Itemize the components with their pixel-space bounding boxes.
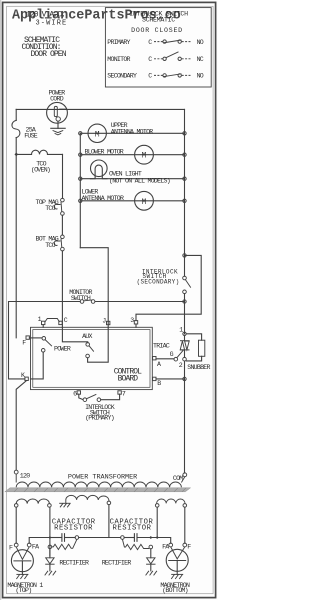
power cord	[47, 90, 68, 124]
magnetron 1 (top)	[7, 543, 43, 594]
interlock switch primary	[79, 394, 120, 421]
svg-text:120: 120	[20, 472, 30, 479]
left motor bus vertical	[79, 133, 81, 247]
FA2 branch wire	[157, 538, 171, 544]
page border outer	[3, 2, 216, 597]
wire bus corner to J	[80, 248, 108, 328]
capacitor resistor label left	[52, 519, 96, 533]
wire BOT MAG TCO down to connector 1-C	[61, 251, 63, 327]
blower motor M2	[85, 145, 154, 164]
svg-text:NC: NC	[197, 56, 204, 63]
svg-text:(NOT ON ALL MODELS): (NOT ON ALL MODELS)	[109, 177, 170, 184]
svg-text:DOOR CLOSED: DOOR CLOSED	[131, 27, 183, 34]
pin 7 connector	[118, 390, 126, 397]
wire C pin to aux relay	[62, 327, 87, 342]
rectifier D2	[102, 549, 157, 576]
wire F to power relay	[29, 337, 42, 339]
svg-text:CORD: CORD	[50, 96, 64, 103]
svg-text:FUSE: FUSE	[24, 132, 38, 139]
capacitor C1	[50, 534, 75, 542]
svg-text:120 V.A.C.: 120 V.A.C.	[26, 11, 65, 20]
bypass loop wire right	[136, 255, 201, 320]
node B junction	[183, 377, 186, 380]
upper antenna motor row wire	[80, 132, 184, 134]
power transformer	[5, 470, 191, 507]
wire TCO branch horizontal	[16, 153, 31, 155]
BOT MAG TCO	[36, 235, 65, 251]
wire B to right vertical	[156, 378, 185, 380]
schematic condition note	[22, 36, 67, 59]
wire winding to cap node left	[49, 507, 51, 556]
title text 120 V.A.C. 3-WIRE	[26, 11, 67, 28]
monitor switch row wire	[9, 302, 185, 379]
svg-text:TCO: TCO	[45, 205, 55, 212]
svg-text:M: M	[142, 199, 147, 207]
HV ground	[59, 502, 70, 504]
oven light row wire	[80, 178, 184, 180]
svg-text:POWER TRANSFORMER: POWER TRANSFORMER	[68, 474, 137, 482]
pin B connector	[153, 377, 162, 387]
table row MONITOR (open contact)	[107, 52, 204, 63]
resistor R2	[122, 539, 152, 549]
wire vertical to TOP MAG TCO	[62, 154, 64, 198]
node row2 right	[183, 153, 186, 156]
svg-text:M: M	[142, 153, 147, 161]
pin K connector	[21, 372, 28, 381]
wire aux relay to J	[88, 327, 109, 362]
capacitor C2	[124, 534, 157, 542]
svg-text:NO: NO	[197, 39, 204, 46]
node cap left junction	[48, 536, 51, 539]
snubber	[186, 334, 210, 371]
upper antenna motor M1	[88, 122, 153, 142]
node row4 right	[183, 199, 186, 202]
table row PRIMARY (closed contact)	[107, 39, 204, 46]
svg-text:SNUBBER: SNUBBER	[187, 364, 210, 371]
terminal 120	[14, 470, 18, 474]
svg-text:(BOTTOM): (BOTTOM)	[162, 587, 188, 594]
pin J connector	[102, 318, 110, 325]
node row3 right	[183, 177, 186, 180]
table row SECONDARY (closed contact)	[107, 73, 204, 80]
wire between TCOs	[61, 215, 63, 235]
svg-text:(SECONDARY): (SECONDARY)	[137, 278, 180, 285]
wire K to transformer 120	[16, 381, 26, 471]
node 76.9	[75, 536, 79, 540]
FA1 branch wire	[29, 538, 50, 544]
TCO (OVEN) thermal cutout	[31, 150, 63, 173]
svg-text:BOARD: BOARD	[118, 375, 139, 384]
svg-text:RESISTOR: RESISTOR	[113, 524, 152, 532]
wire A to triac gate	[156, 358, 174, 360]
svg-text:SCHEMATIC: SCHEMATIC	[142, 16, 175, 23]
wire triac pin2 to B node to COM	[184, 361, 186, 473]
interlock switch schematic box	[105, 8, 211, 87]
wire left vertical fuse to F pin row	[15, 138, 17, 338]
scan edge shading left	[0, 0, 1, 600]
aux relay contact	[82, 333, 94, 358]
oven light lamp	[90, 160, 170, 184]
svg-text:ANTENNA MOTOR: ANTENNA MOTOR	[82, 195, 124, 202]
svg-text:PRIMARY: PRIMARY	[107, 39, 130, 46]
svg-text:MONITOR: MONITOR	[107, 56, 130, 63]
fuse 25A	[12, 120, 20, 137]
power relay contact	[41, 337, 70, 353]
pin A connector	[153, 357, 161, 369]
svg-text:3-WIRE: 3-WIRE	[36, 20, 68, 28]
monitor switch	[69, 289, 95, 303]
node row1 left	[79, 132, 82, 135]
wire winding right to cap node	[156, 507, 158, 537]
mid wire between sections	[79, 537, 121, 539]
TOP MAG TCO	[36, 198, 65, 215]
svg-text:DOOR OPEN: DOOR OPEN	[31, 50, 67, 59]
node resistor-cap right junction dot	[149, 536, 152, 539]
svg-text:TRIAC: TRIAC	[153, 343, 170, 350]
connector 1-C jumper above board	[38, 316, 68, 327]
svg-text:RECTIFIER: RECTIFIER	[102, 559, 132, 566]
svg-text:RESISTOR: RESISTOR	[54, 524, 93, 532]
wire F2 down	[184, 507, 186, 543]
lower antenna motor row wire	[80, 200, 184, 202]
svg-text:(PRIMARY): (PRIMARY)	[85, 415, 114, 422]
node right bus bottom	[183, 254, 186, 257]
svg-text:FA: FA	[32, 543, 39, 550]
rectifier D1	[45, 549, 89, 576]
junction at TCO branch	[14, 153, 18, 157]
svg-text:ANTENNA MOTOR: ANTENNA MOTOR	[111, 128, 153, 135]
svg-text:POWER: POWER	[54, 345, 71, 352]
svg-text:NO: NO	[197, 73, 204, 80]
primary winding	[16, 474, 185, 487]
node monitor right	[183, 300, 186, 303]
transformer core	[5, 488, 191, 492]
svg-text:RECTIFIER: RECTIFIER	[59, 559, 89, 566]
filament winding left	[16, 499, 49, 504]
svg-text:OVEN LIGHT: OVEN LIGHT	[109, 170, 142, 177]
interlock switch secondary	[137, 255, 191, 293]
capacitor resistor label right	[110, 519, 154, 533]
svg-text:SECONDARY: SECONDARY	[107, 73, 137, 80]
wire power relay to K	[31, 352, 44, 379]
resistor R1	[48, 539, 77, 549]
wire left vertical from top to fuse	[15, 109, 17, 120]
svg-text:(OVEN): (OVEN)	[31, 167, 50, 174]
svg-text:(TOP): (TOP)	[15, 587, 31, 594]
triac	[153, 326, 190, 369]
node row2 left	[79, 153, 82, 156]
control board outline	[31, 327, 153, 389]
blower motor row wire	[80, 154, 184, 156]
terminal COM	[183, 473, 187, 477]
watermark AppliancePartsPros	[12, 9, 181, 24]
svg-text:TCO: TCO	[45, 242, 55, 249]
pin F connector	[22, 336, 29, 347]
wire top horizontal L1	[16, 108, 184, 110]
svg-text:AUX: AUX	[82, 333, 92, 340]
lower antenna motor M3	[82, 188, 154, 210]
interlock box title	[129, 11, 188, 34]
right bus vertical	[184, 109, 186, 255]
svg-text:BLOWER MOTOR: BLOWER MOTOR	[85, 148, 124, 155]
node cap right junction	[156, 536, 159, 539]
svg-text:M: M	[95, 131, 100, 139]
power cord ground	[51, 121, 65, 135]
HV winding with ground	[66, 495, 109, 503]
svg-text:FA: FA	[162, 543, 169, 550]
node row4 left	[79, 199, 82, 202]
wire interlock secondary to monitor node	[184, 294, 186, 334]
svg-text:COM: COM	[173, 475, 183, 482]
page border inner	[7, 6, 214, 593]
pin 3 connector	[130, 317, 137, 328]
node row1 right	[183, 132, 186, 135]
node row3 left	[79, 177, 82, 180]
wire HV to mid wire	[108, 505, 110, 538]
pin 6 connector	[73, 390, 80, 397]
filament winding right	[157, 499, 185, 503]
magnetron 2 (bottom)	[160, 543, 191, 594]
wire F1 down	[15, 507, 17, 543]
node 122.4	[121, 536, 125, 540]
